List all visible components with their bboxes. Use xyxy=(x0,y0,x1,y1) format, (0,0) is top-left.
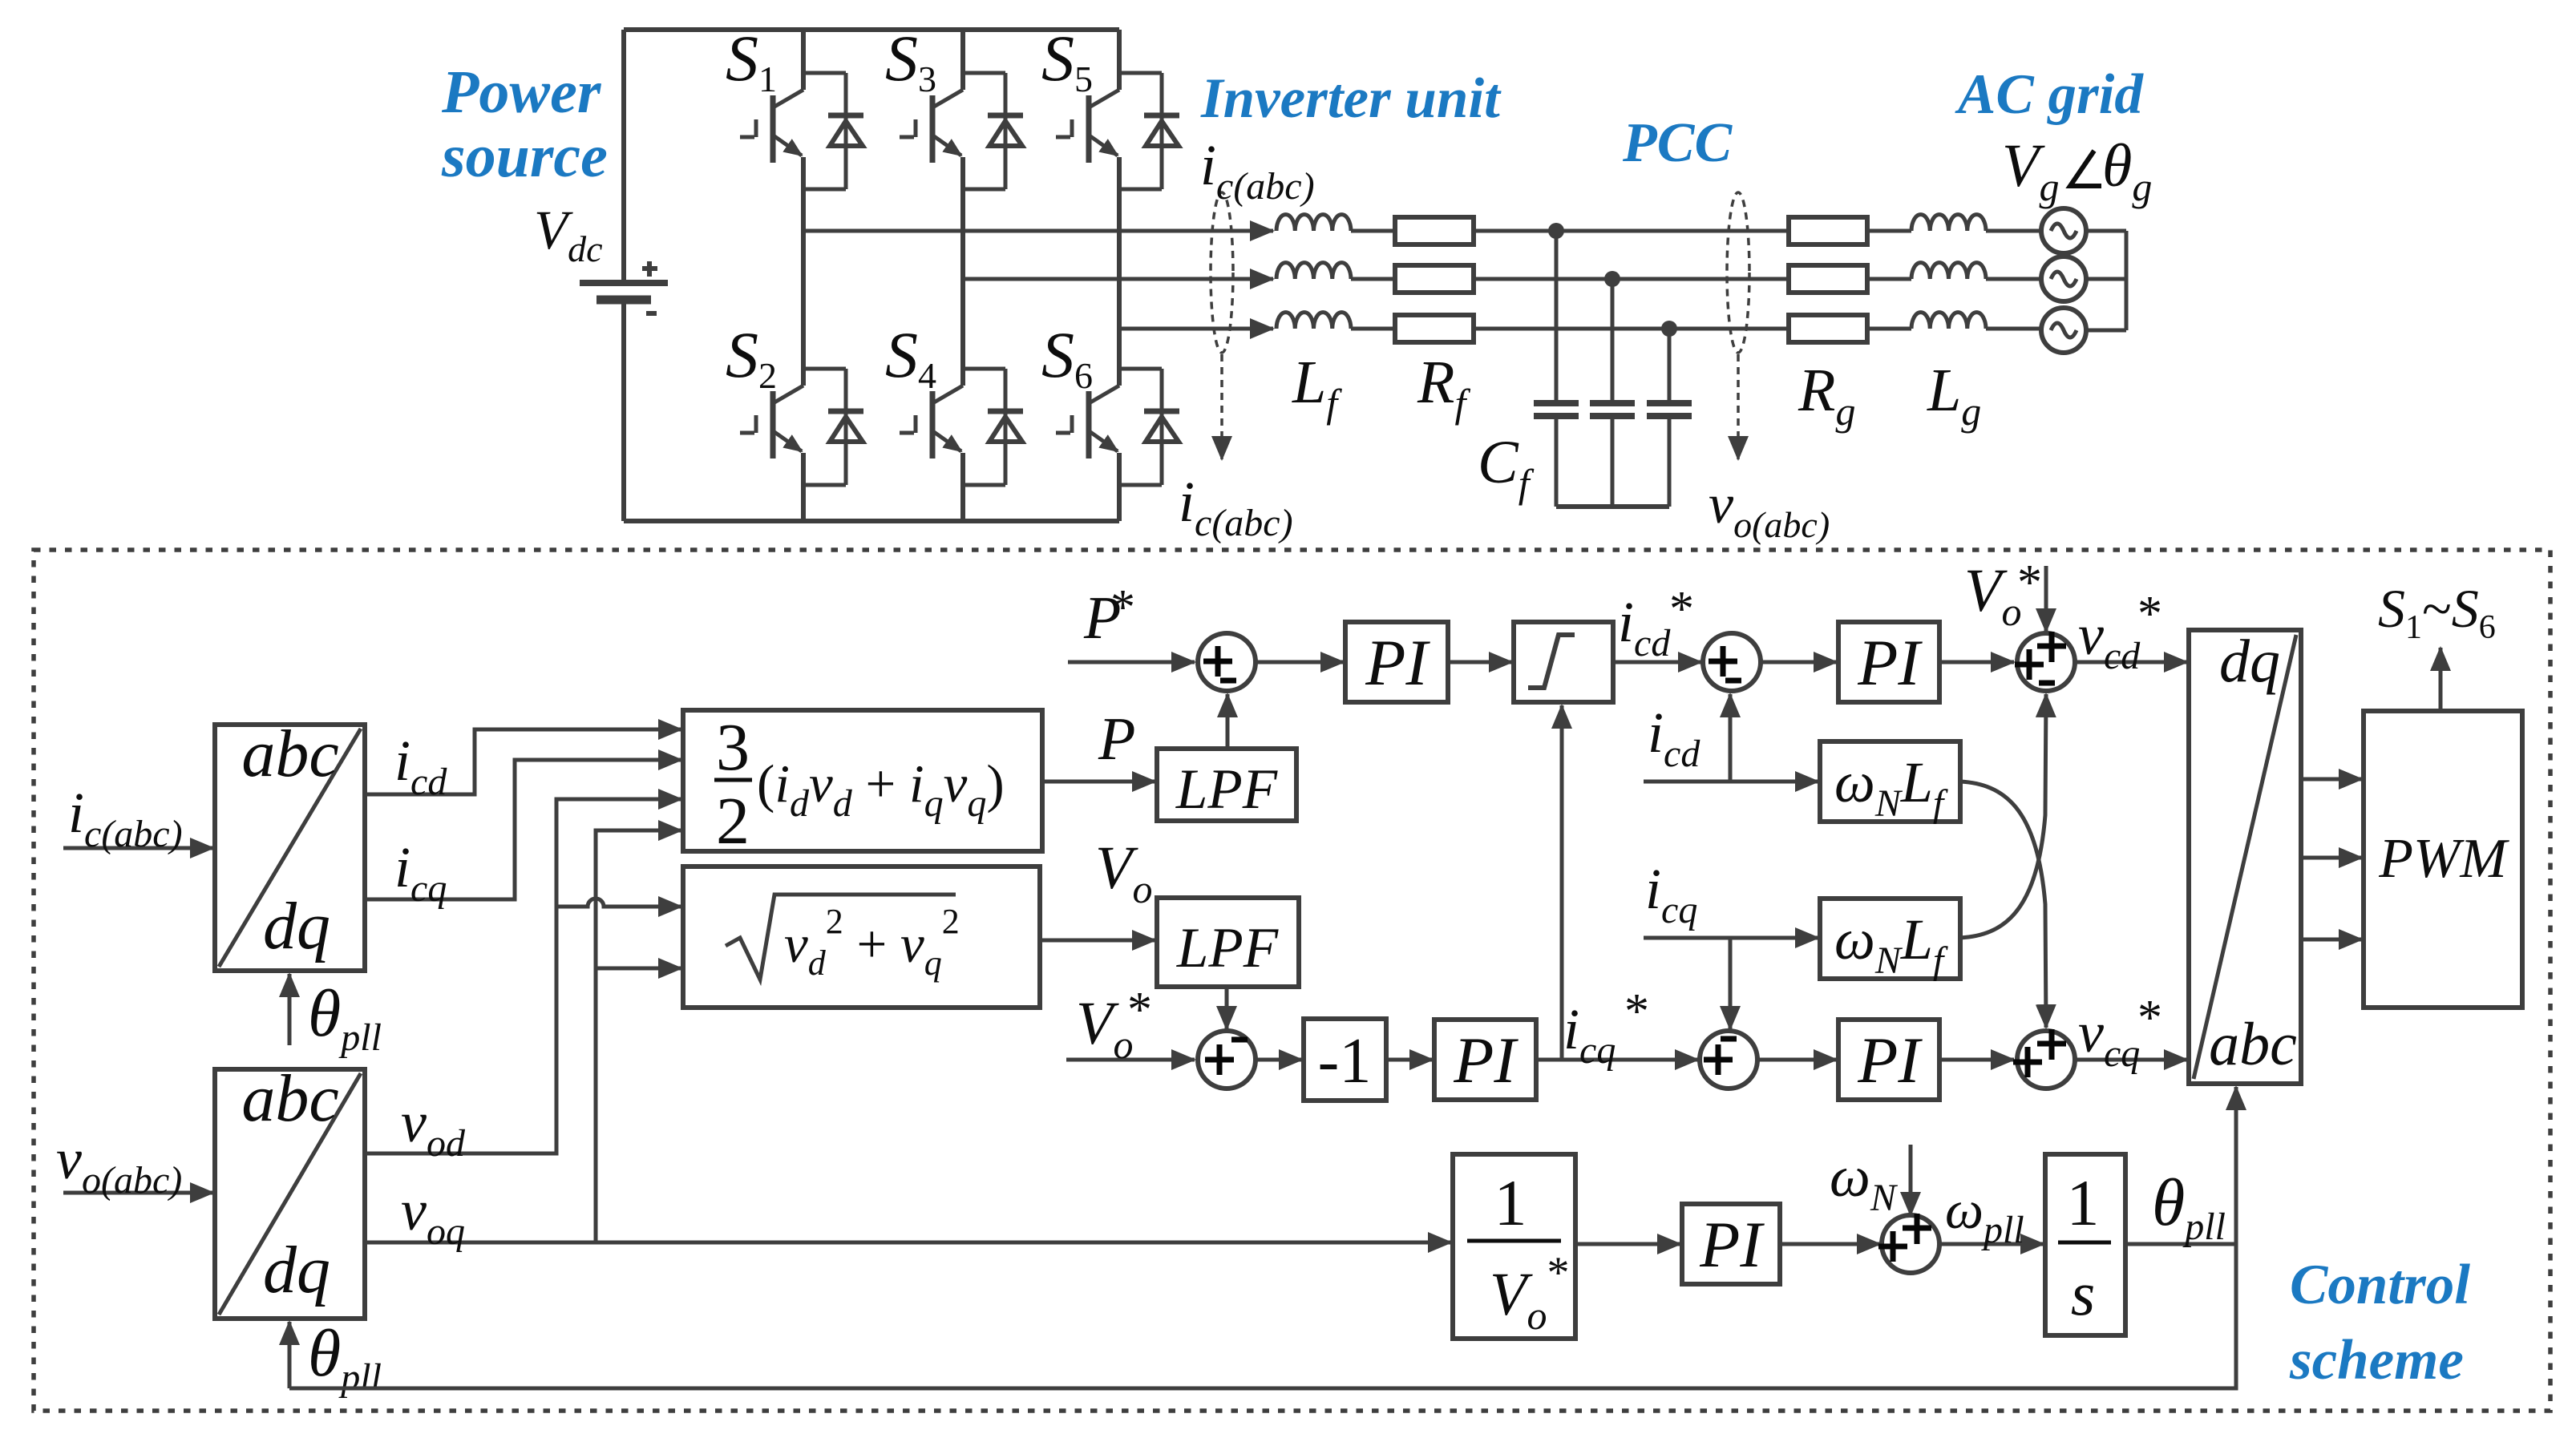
block: PI 1 xyxy=(1345,622,1448,702)
transistor S1 (IGBT with freewheeling diode) xyxy=(740,73,863,189)
svg-text:*: * xyxy=(2137,587,2162,641)
block: abc/dq transform 1 (currents) xyxy=(215,717,365,971)
wire: saturation to sum2 xyxy=(1613,660,1701,664)
wire: P* input stub xyxy=(1068,660,1195,664)
wire: phase a Rf to Rg xyxy=(1474,229,1789,233)
block: sqrt(vd^2+vq^2) xyxy=(683,866,1040,1008)
transistor S3 (IGBT with freewheeling diode) xyxy=(900,73,1023,189)
wire: phase b Rf to Rg xyxy=(1474,277,1789,281)
resistor Rg phase a xyxy=(1789,217,1867,244)
block: PWM xyxy=(2364,711,2522,1008)
wire: 1/Vo* to PI5 xyxy=(1575,1242,1680,1246)
label Vo* top xyxy=(1964,555,2042,634)
svg-text:*: * xyxy=(1624,984,1649,1039)
svg-text:PCC: PCC xyxy=(1622,112,1733,174)
wire: dq/abc to PWM arrow 1 xyxy=(2301,778,2362,782)
wire: phase c Lg to source xyxy=(1986,327,2041,331)
wire: sum1 to PI1 xyxy=(1256,660,1344,664)
svg-text:abc: abc xyxy=(241,1061,338,1136)
node: PCC junction phase c xyxy=(1661,321,1677,337)
wire: vod branch to sqrt block with hop xyxy=(556,899,681,907)
wire: phase a line from leg 1 xyxy=(803,229,1273,233)
wire: voq branch up to power block xyxy=(596,830,681,1242)
label icd* xyxy=(1618,582,1694,664)
wire: leg 2 (phase b) xyxy=(960,30,965,521)
wire: icq stub into omegaN Lf 2 xyxy=(1644,936,1818,940)
transistor S5 (IGBT with freewheeling diode) xyxy=(1056,73,1179,189)
wire: dq/abc to PWM arrow 3 xyxy=(2301,938,2362,942)
wire: ic(abc) input arrow xyxy=(63,846,213,850)
wire: vod from abc/dq to power block xyxy=(365,799,681,1153)
wire: -1 to PI3 xyxy=(1386,1058,1433,1062)
block: abc/dq transform 2 (voltages) xyxy=(215,1061,365,1319)
wire: Vo* stub into sum5 xyxy=(2044,566,2048,632)
wire: phase b Rg to Lg xyxy=(1867,277,1911,281)
svg-text:source: source xyxy=(441,123,608,190)
resistor Rg phase c xyxy=(1789,315,1867,342)
svg-text:dq: dq xyxy=(263,1233,330,1307)
block: LPF 2 xyxy=(1157,898,1299,987)
svg-text:AC grid: AC grid xyxy=(1955,63,2144,126)
wire: theta_pll up into dq/abc xyxy=(2234,1087,2238,1244)
wire: sum3 to -1 block xyxy=(1256,1058,1302,1062)
wire: phase b Lg to source xyxy=(1986,277,2041,281)
svg-text:PI: PI xyxy=(1699,1208,1765,1281)
summing junction sum6 (vcq*) xyxy=(2013,1029,2075,1089)
capacitor Cf phase c xyxy=(1647,329,1692,507)
wire: phase c Rg to Lg xyxy=(1867,327,1911,331)
label Vg angle thetag xyxy=(2002,132,2152,209)
battery Vdc xyxy=(580,261,668,313)
block: PI 3 xyxy=(1434,1020,1536,1100)
summing junction sum4 (icq* - icq) xyxy=(1700,1031,1757,1089)
svg-text:dq: dq xyxy=(2219,628,2280,695)
wire: phase a Lf to Rf xyxy=(1351,229,1397,233)
wire: phase b Lf to Rf xyxy=(1351,277,1397,281)
svg-text:abc: abc xyxy=(2209,1011,2297,1078)
svg-text:Inverter unit: Inverter unit xyxy=(1200,67,1502,130)
transistor S6 (IGBT with freewheeling diode) xyxy=(1056,369,1179,485)
summing junction sum1 (P* - P) xyxy=(1198,633,1256,691)
wire: 1/s output theta_pll xyxy=(2125,1242,2236,1246)
transistor S4 (IGBT with freewheeling diode) xyxy=(900,369,1023,485)
node: PCC junction phase b xyxy=(1604,271,1620,287)
wire: voq branch to sqrt block xyxy=(596,967,681,971)
svg-text:Power: Power xyxy=(441,59,602,126)
summing junction sum7 (omega_pll) xyxy=(1878,1214,1939,1273)
svg-text:PI: PI xyxy=(1365,626,1430,699)
label icq* xyxy=(1563,984,1649,1072)
arrow: theta_pll into abc/dq 1 xyxy=(288,974,292,1045)
wire: icd stub into omegaN Lf 1 xyxy=(1644,780,1818,784)
wire: PI5 to sum7 xyxy=(1780,1242,1880,1246)
inductor Lg phase a xyxy=(1911,215,1986,231)
wire: DC bus left rail with battery gap xyxy=(621,30,626,521)
resistor Rf phase b xyxy=(1395,265,1474,293)
label Vo* row3 xyxy=(1076,983,1152,1067)
svg-text:*: * xyxy=(1669,582,1694,636)
svg-text:-1: -1 xyxy=(1318,1026,1372,1097)
wire: LPF1 up to sum1 xyxy=(1226,694,1230,749)
wire: icq from abc/dq to power block xyxy=(365,760,681,899)
wire: Vo* input stub row3 xyxy=(1066,1058,1195,1062)
block: saturation limiter xyxy=(1514,622,1613,702)
wire: icq* branch up into saturation block xyxy=(1560,705,1564,1060)
svg-text:1: 1 xyxy=(1494,1166,1527,1239)
summing junction sum3 (Vo* - Vo) xyxy=(1198,1031,1256,1089)
svg-text:Control: Control xyxy=(2290,1254,2470,1316)
svg-text:*: * xyxy=(2017,555,2042,610)
wire: sum7 to 1/s xyxy=(1939,1242,2044,1246)
wire: PI3 to sum4 (icq* row) xyxy=(1536,1058,1698,1062)
wire: PWM output to S1~S6 xyxy=(2439,648,2443,711)
svg-text:scheme: scheme xyxy=(2289,1329,2464,1392)
dashed border: control scheme box xyxy=(34,550,2550,1411)
wire: leg 3 (phase c) xyxy=(1117,30,1122,521)
inductor Lg phase b xyxy=(1911,263,1986,279)
svg-text:S1~S6: S1~S6 xyxy=(2378,578,2496,646)
wire: inverter top rail xyxy=(624,27,1119,32)
block: omegaN Lf 2 xyxy=(1820,899,1960,982)
svg-text:LPF: LPF xyxy=(1176,917,1279,980)
wire: theta_pll feedback return xyxy=(289,1244,2236,1388)
wire: capacitor common bus xyxy=(1556,504,1669,509)
AC source Vg phase b xyxy=(2041,257,2086,301)
svg-text:*: * xyxy=(2137,991,2162,1045)
wire: P output to LPF1 xyxy=(1042,780,1155,784)
wire: phase a Rg to Lg xyxy=(1867,229,1911,233)
block: PI 2 xyxy=(1838,622,1939,702)
arrow: measurement ic(abc) down xyxy=(1220,354,1223,459)
wire: phase b line from leg 2 xyxy=(963,277,1273,281)
label vcd* xyxy=(2078,587,2162,677)
wire: icd branch up to sum2 xyxy=(1729,694,1733,782)
wire: PI4 to sum6 xyxy=(1939,1058,2014,1062)
arrow: measurement vo(abc) down xyxy=(1737,354,1740,459)
block: 1/Vo* gain xyxy=(1453,1154,1575,1339)
wire: phase a Lg to source xyxy=(1986,229,2041,233)
wire: sum6 to dq/abc xyxy=(2075,1058,2187,1062)
capacitor Cf phase a xyxy=(1534,231,1579,507)
svg-text:abc: abc xyxy=(241,717,338,791)
svg-text:PI: PI xyxy=(1857,1024,1923,1097)
wire: phase c line from leg 3 xyxy=(1119,327,1273,331)
block: power calculation 3/2(id vd + iq vq) xyxy=(683,710,1042,858)
wire: PI2 to sum5 xyxy=(1939,660,2014,664)
svg-text:s: s xyxy=(2071,1258,2095,1328)
wire: vo(abc) input arrow xyxy=(63,1191,213,1195)
wire: leg 1 (phase a) xyxy=(801,30,806,521)
wire: sum4 to PI4 xyxy=(1757,1058,1837,1062)
block: dq/abc transform xyxy=(2189,628,2301,1084)
label vcq* xyxy=(2078,991,2162,1075)
wire: PI1 to saturation xyxy=(1448,660,1512,664)
svg-text:LPF: LPF xyxy=(1175,758,1278,821)
block: gain -1 xyxy=(1304,1019,1386,1101)
block: LPF 1 xyxy=(1157,749,1296,821)
wire: LPF2 down to sum3 xyxy=(1225,987,1229,1029)
arrow: theta_pll into abc/dq 2 xyxy=(288,1322,292,1388)
resistor Rg phase b xyxy=(1789,265,1867,293)
node: PCC junction phase a xyxy=(1548,223,1564,239)
svg-text:PI: PI xyxy=(1857,626,1923,699)
summing junction sum5 (vcd*) xyxy=(2015,632,2075,691)
wire: phase c Lf to Rf xyxy=(1351,327,1397,331)
inductor Lf phase a xyxy=(1276,215,1351,231)
svg-text:3: 3 xyxy=(716,710,750,785)
inductor Lg phase c xyxy=(1911,313,1986,329)
wire: voq long line to 1/Vo block xyxy=(365,1241,1451,1245)
svg-text:1: 1 xyxy=(2067,1166,2100,1239)
svg-text:P: P xyxy=(1098,705,1135,773)
AC source Vg phase c xyxy=(2041,308,2086,353)
wire: omegaN Lf 2 cross-coupling curve to sum5 xyxy=(1960,694,2046,938)
label P* xyxy=(1083,580,1135,652)
wire: inverter bottom rail xyxy=(624,519,1119,523)
resistor Rf phase c xyxy=(1395,315,1474,342)
wire: dq/abc to PWM arrow 2 xyxy=(2301,856,2362,860)
wire: sum5 to dq/abc xyxy=(2075,660,2187,664)
capacitor Cf phase b xyxy=(1590,279,1635,507)
svg-text:PI: PI xyxy=(1453,1024,1519,1097)
summing junction sum2 (icd* - icd) xyxy=(1703,633,1761,691)
block: PI 5 xyxy=(1682,1204,1780,1284)
wire: sum2 to PI2 xyxy=(1761,660,1837,664)
wire: icq branch down to sum4 xyxy=(1729,938,1733,1029)
transistor S2 (IGBT with freewheeling diode) xyxy=(740,369,863,485)
wire: omegaN Lf 1 cross-coupling curve to sum6 xyxy=(1960,782,2046,1028)
wire: omegaN stub into sum7 xyxy=(1909,1145,1913,1215)
inductor Lf phase c xyxy=(1276,313,1351,329)
block: omegaN Lf 1 xyxy=(1820,741,1960,825)
svg-text:PWM: PWM xyxy=(2378,828,2509,890)
wire: phase c Rf to Rg xyxy=(1474,327,1789,331)
svg-text:*: * xyxy=(1127,983,1152,1037)
block: integrator 1/s xyxy=(2045,1154,2125,1335)
ellipse: measurement loop vo(abc) xyxy=(1727,192,1749,353)
wire: icd from abc/dq to power block xyxy=(365,729,681,794)
ellipse: measurement loop ic(abc) xyxy=(1211,192,1233,353)
svg-text:*: * xyxy=(1110,580,1135,635)
block: PI 4 xyxy=(1838,1020,1939,1100)
resistor Rf phase a xyxy=(1395,217,1474,244)
AC source Vg phase a xyxy=(2041,208,2086,253)
wire: grid neutral bus xyxy=(2086,231,2126,330)
svg-text:2: 2 xyxy=(716,784,750,858)
svg-text:dq: dq xyxy=(263,889,330,963)
inductor Lf phase b xyxy=(1276,263,1351,279)
wire: Vo output to LPF2 xyxy=(1040,939,1155,943)
